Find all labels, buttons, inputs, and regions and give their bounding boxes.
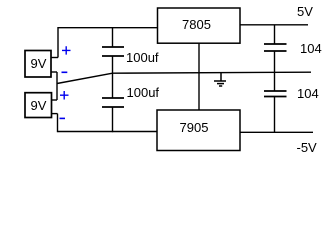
- wire 7805 ground pin to 7905: [198, 43, 200, 110]
- capacitor C1 100uf plates: [102, 47, 124, 56]
- wire cap C1 bottom / C2 top lead: [112, 56, 114, 98]
- svg-text:9V: 9V: [31, 56, 47, 71]
- capacitor C2 100uf plates: [102, 98, 124, 107]
- wire cap C3 bottom / C4 top lead: [274, 51, 276, 91]
- svg-text:7905: 7905: [180, 120, 209, 135]
- battery B1 minus mark: [62, 71, 68, 73]
- wire diagonal bat1-/bat2+ junction to mid rail: [57, 73, 113, 83]
- ground: [214, 73, 226, 86]
- regulator U1 7805: [158, 8, 241, 43]
- wire battery1 minus stub: [50, 71, 57, 73]
- svg-text:9V: 9V: [31, 98, 47, 113]
- battery B2 minus mark: [60, 117, 66, 119]
- capacitor C4 104 plates: [264, 91, 287, 97]
- wire cap C3 top lead: [274, 25, 276, 44]
- wire top rail right (7805 output to +5V): [240, 24, 308, 26]
- wire cap C1 top lead: [112, 28, 114, 47]
- wire cap C2 bottom lead: [112, 107, 114, 132]
- svg-text:104: 104: [297, 86, 319, 101]
- wire battery1 plus stub: [50, 57, 58, 59]
- wire top rail left (battery1 + to 7805 input): [58, 27, 158, 29]
- wire bottom rail right (7905 output to -5V): [240, 131, 313, 133]
- wire battery column vertical (bat1- to bat2+): [56, 72, 58, 100]
- wire battery2 minus stub: [51, 113, 58, 115]
- wire battery2 minus vertical: [57, 114, 59, 133]
- svg-text:104: 104: [300, 41, 322, 56]
- svg-text:-5V: -5V: [297, 140, 318, 155]
- wire cap C4 bottom lead: [274, 97, 276, 134]
- capacitor C3 104 plates: [264, 44, 287, 51]
- battery B2 9V: [25, 93, 52, 118]
- battery B1 9V: [25, 51, 51, 78]
- svg-text:100uf: 100uf: [126, 50, 159, 65]
- wire bottom rail left (battery2 - to 7905): [58, 131, 158, 133]
- svg-text:100uf: 100uf: [127, 85, 160, 100]
- battery B2 plus mark: [60, 91, 69, 100]
- battery B1 plus mark: [62, 46, 71, 54]
- svg-text:5V: 5V: [297, 4, 313, 19]
- wire battery1 plus vertical: [57, 27, 59, 58]
- regulator U2 7905: [157, 110, 240, 151]
- wire battery2 plus stub: [51, 99, 57, 101]
- wire middle rail (common/ground): [113, 72, 312, 73]
- svg-text:7805: 7805: [182, 17, 211, 32]
